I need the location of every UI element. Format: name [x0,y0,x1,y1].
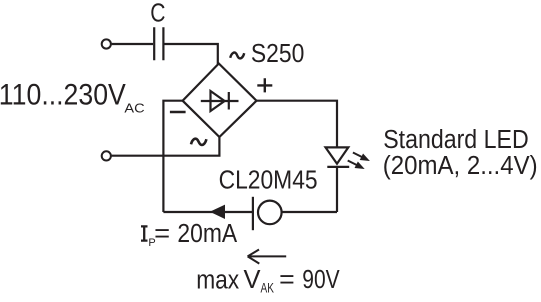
svg-text:(20mA, 2...4V): (20mA, 2...4V) [383,152,538,180]
svg-text:Standard LED: Standard LED [383,126,529,154]
tilde AC mark at bridge bottom [191,139,206,145]
diode inside bridge: anode line [201,100,239,102]
LED light arrow 1 [351,149,371,164]
current arrow on bottom wire [210,205,225,219]
wire bridge right vertex to top right corner down to LED [257,101,338,148]
minus sign at bridge - output [170,111,186,113]
arrow under bottom label (V_AK direction) [248,250,287,264]
LED light arrow 2 [346,157,366,172]
tilde AC mark near S250 [230,53,244,59]
diode inside bridge: triangle [211,91,225,111]
LED D1 cathode bar [327,166,349,168]
label I of Ip (serif I drawn) [141,226,148,240]
wire CRD to bottom right corner [282,211,337,213]
svg-text:C: C [150,0,165,27]
bridge rectifier diamond [183,64,257,138]
wire capacitor to corner and down to bridge top [165,44,218,64]
wire bridge left vertex to left rail down to bottom wire [163,101,182,212]
terminal lower input [102,151,111,160]
svg-text:AC: AC [124,101,144,116]
LED D1 triangle [326,147,349,163]
svg-text:=: = [279,266,295,294]
svg-text:max: max [196,266,239,294]
CRD CL20M45 bar [252,197,254,230]
svg-text:CL20M45: CL20M45 [219,167,318,195]
svg-text:AK: AK [261,279,275,295]
capacitor C [154,27,163,60]
svg-text:20mA: 20mA [177,220,237,248]
bottom wire to CRD [163,211,252,213]
svg-text:V: V [244,266,261,294]
svg-text:=: = [154,220,170,248]
svg-text:110...230V: 110...230V [0,78,126,111]
svg-text:90V: 90V [302,266,339,294]
diode inside bridge: cathode bar [228,92,230,110]
plus sign at bridge + output [257,78,272,92]
wire LED to bottom right corner [336,167,338,212]
wire terminal to capacitor [112,43,153,45]
wire lower terminal to below bridge, up to bottom vertex [112,137,220,156]
CRD CL20M45 circle [258,201,282,225]
terminal upper input [102,39,111,48]
svg-text:S250: S250 [251,40,305,68]
